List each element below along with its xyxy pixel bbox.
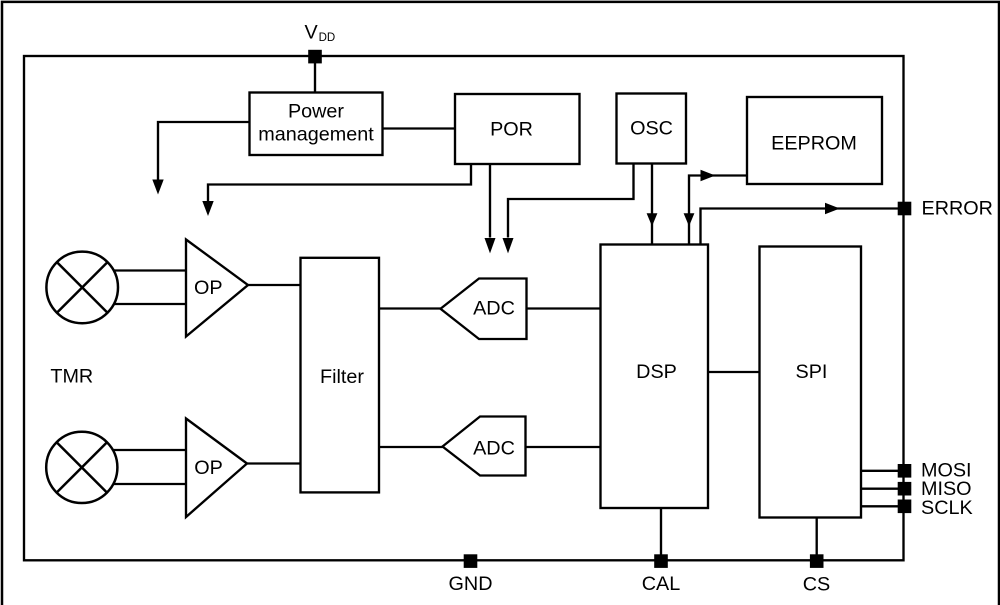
wire Filter to ADC2 — [379, 446, 443, 448]
pin MOSI — [898, 464, 912, 478]
op-amp OP1 — [186, 240, 248, 337]
svg-text:Filter: Filter — [320, 366, 364, 388]
TMR element 1 (crossed circle) — [46, 252, 118, 324]
block OSC — [617, 94, 687, 164]
wire DSP to CAL pin — [660, 508, 662, 555]
wire OSC left-down arrow — [508, 164, 634, 238]
wire POR bottom-left to down arrow — [208, 164, 471, 202]
block EEPROM — [747, 97, 882, 184]
svg-text:SPI: SPI — [796, 361, 828, 383]
svg-text:OP: OP — [194, 457, 223, 479]
chip boundary — [24, 56, 904, 560]
svg-text:ADC: ADC — [473, 438, 515, 460]
pin CS — [810, 554, 824, 568]
wire SPI to CS pin — [816, 518, 818, 556]
wires TMR1 to OP1 — [114, 269, 187, 271]
svg-text:OP: OP — [194, 277, 223, 299]
wire Power management to POR — [383, 127, 456, 129]
block Filter — [301, 258, 380, 493]
svg-text:ERROR: ERROR — [922, 197, 993, 219]
wire DSP to ERROR pin with arrow — [701, 209, 899, 245]
wire ADC2 to DSP — [526, 446, 601, 448]
svg-text:CAL: CAL — [642, 573, 680, 595]
svg-text:OSC: OSC — [630, 118, 673, 140]
pin GND — [464, 554, 478, 568]
ADC1 — [441, 279, 527, 340]
pin VDD — [308, 50, 322, 64]
block POR — [455, 94, 580, 164]
svg-text:DD: DD — [319, 32, 336, 44]
block Power management — [250, 93, 383, 156]
svg-text:EEPROM: EEPROM — [771, 133, 857, 155]
wire SPI to MISO — [861, 488, 898, 490]
block SPI — [760, 247, 862, 518]
wire OP1 to Filter — [248, 284, 301, 286]
wire POR down arrow — [489, 164, 491, 238]
wire VDD to Power management — [314, 63, 316, 93]
pin ERROR — [898, 202, 912, 216]
wire SPI to MOSI — [861, 470, 898, 472]
block DSP — [601, 245, 709, 509]
wire Filter to ADC1 — [379, 307, 441, 309]
wire ADC1 to DSP — [527, 307, 601, 309]
op-amp OP2 — [186, 419, 247, 518]
svg-text:V: V — [305, 21, 319, 43]
svg-text:DSP: DSP — [636, 361, 677, 383]
pin MISO — [898, 482, 912, 496]
wire OSC to DSP with arrow — [651, 164, 653, 245]
TMR element 2 (crossed circle) — [46, 432, 117, 503]
wire Power management left to down arrow — [158, 122, 250, 180]
pin CAL — [654, 554, 668, 568]
wire DSP to EEPROM with arrows — [689, 176, 747, 245]
svg-text:Power: Power — [288, 100, 344, 122]
svg-text:SCLK: SCLK — [921, 497, 973, 519]
wire DSP to SPI — [708, 371, 760, 373]
pin SCLK — [898, 500, 912, 514]
svg-text:POR: POR — [490, 118, 533, 140]
svg-text:CS: CS — [803, 574, 830, 596]
svg-text:GND: GND — [449, 573, 493, 595]
svg-text:ADC: ADC — [473, 298, 515, 320]
wires TMR2 to OP2 — [113, 449, 186, 451]
wire SPI to SCLK — [861, 505, 898, 507]
wire OP2 to Filter — [247, 462, 301, 464]
svg-text:TMR: TMR — [50, 366, 93, 388]
ADC2 — [443, 417, 526, 476]
svg-text:management: management — [258, 123, 374, 145]
